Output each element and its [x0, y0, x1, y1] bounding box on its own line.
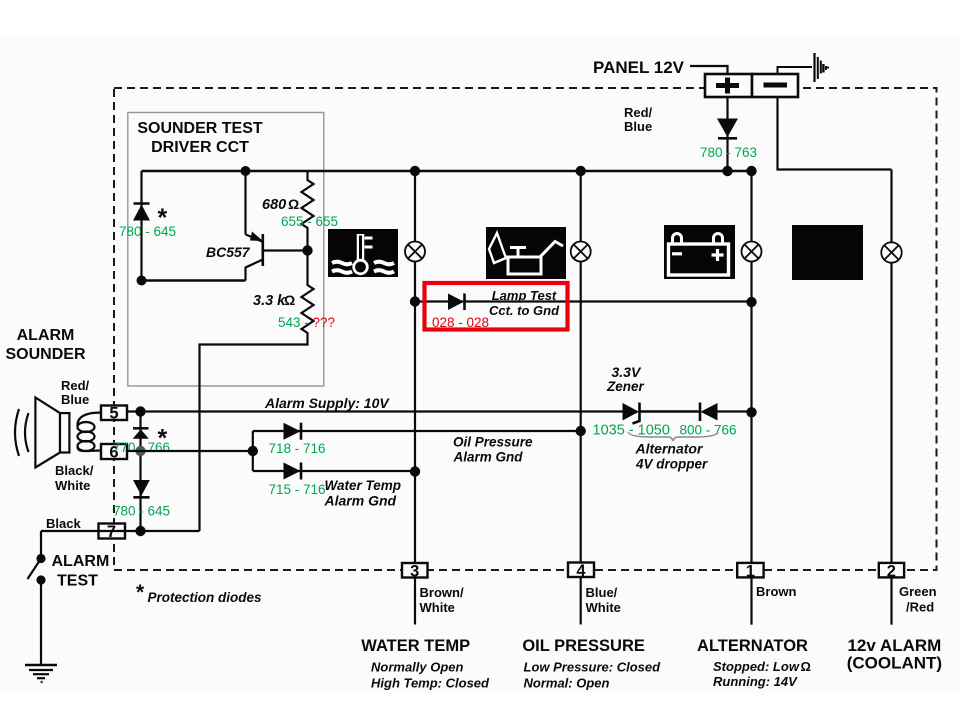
- svg-text:Zener: Zener: [606, 379, 645, 394]
- wire to alarm test switch: [40, 531, 42, 555]
- wire below pin1: [750, 577, 752, 624]
- svg-text:(COOLANT): (COOLANT): [847, 654, 942, 673]
- node pin7 junction: [135, 526, 145, 536]
- wire bus top: [142, 170, 755, 172]
- svg-text:Low Pressure: Closed: Low Pressure: Closed: [524, 660, 662, 675]
- svg-text:Black/: Black/: [55, 463, 94, 478]
- node pin6 junction: [135, 446, 145, 456]
- node collector-left junction: [137, 276, 147, 286]
- node bus battery junction: [722, 166, 732, 176]
- svg-text:5: 5: [109, 405, 118, 423]
- svg-text:Ω: Ω: [288, 196, 299, 212]
- wire column 12v alarm: [890, 170, 892, 564]
- svg-text:WATER TEMP: WATER TEMP: [361, 637, 470, 655]
- resistor R1 680 ohm: [302, 171, 314, 251]
- wire column alternator: [750, 171, 752, 563]
- node lamp test left: [410, 296, 420, 306]
- wire column water temp: [414, 171, 416, 563]
- svg-text:Black: Black: [46, 516, 81, 531]
- svg-text:Lamp Test: Lamp Test: [492, 288, 557, 303]
- wire pin5 to junction / alarm supply: [127, 410, 623, 412]
- svg-text:/Red: /Red: [906, 600, 934, 615]
- wire collector horizontal: [142, 279, 246, 281]
- brace alternator dropper: [628, 432, 718, 441]
- wire below pin2: [890, 577, 892, 624]
- wire panel to battery: [690, 66, 728, 74]
- wire water temp gnd branch: [253, 470, 415, 472]
- svg-text:ALTERNATOR: ALTERNATOR: [697, 637, 808, 655]
- svg-text:Brown: Brown: [756, 584, 797, 599]
- svg-text:ALARM: ALARM: [52, 553, 110, 570]
- wire protection chain 5-6-7: [139, 412, 141, 532]
- pin 2: [879, 562, 904, 580]
- lamp L1 water temp: [405, 242, 425, 262]
- svg-text:Blue: Blue: [61, 392, 89, 407]
- svg-text:Blue/: Blue/: [586, 585, 618, 600]
- svg-text:Stopped: Low: Stopped: Low: [713, 659, 800, 674]
- zener Z1 3.3V: [623, 403, 640, 424]
- node bus alternator junction: [746, 166, 756, 176]
- node bus watertemp junction: [410, 166, 420, 176]
- mark dot below ground: [40, 681, 43, 684]
- svg-text:*: *: [136, 581, 145, 604]
- wire below pin3: [414, 578, 416, 625]
- node bus-emitter junction: [241, 166, 251, 176]
- pin 7: [99, 523, 126, 541]
- svg-text:780 - 645: 780 - 645: [113, 504, 170, 519]
- diode D8 water gnd: [284, 463, 302, 480]
- battery terminal minus box: [752, 74, 798, 97]
- icon oil pressure warning: [486, 227, 566, 279]
- wire zener to diode: [640, 410, 701, 413]
- red highlight box: [425, 283, 568, 330]
- lamp L4 coolant alarm: [881, 242, 901, 262]
- svg-text:Water Temp: Water Temp: [325, 478, 402, 493]
- svg-text:TEST: TEST: [57, 573, 98, 590]
- wire battery plus drop: [726, 97, 728, 171]
- svg-text:SOUNDER: SOUNDER: [5, 346, 85, 363]
- svg-text:543 - ???: 543 - ???: [278, 315, 335, 330]
- svg-text:780 - 645: 780 - 645: [119, 224, 176, 239]
- svg-text:718 - 716: 718 - 716: [269, 441, 326, 456]
- svg-text:High Temp: Closed: High Temp: Closed: [371, 676, 490, 691]
- dashed unit boundary: [114, 88, 937, 570]
- icon water temp warning: [328, 229, 398, 277]
- wire lamp test line: [415, 300, 752, 302]
- pin 4: [568, 562, 594, 580]
- wire left drop sounder box: [140, 171, 142, 282]
- svg-text:Brown/: Brown/: [420, 585, 464, 600]
- diode D5 protection (6-7): [133, 480, 150, 497]
- svg-text:ALARM: ALARM: [17, 327, 75, 344]
- wire column oil pressure: [580, 171, 582, 563]
- svg-text:Running: 14V: Running: 14V: [713, 674, 798, 689]
- svg-text:1035 - 1050: 1035 - 1050: [593, 423, 670, 439]
- wire diode to alternator column: [718, 410, 752, 412]
- svg-text:Ω: Ω: [284, 292, 295, 308]
- lamp L2 oil: [571, 242, 591, 262]
- wire branch vertical connector: [252, 431, 254, 471]
- node pin6 branch junction: [248, 446, 258, 456]
- node pin5 junction: [135, 406, 145, 416]
- svg-text:Cct. to Gnd: Cct. to Gnd: [489, 303, 560, 318]
- resistor R2 3.3 kohm: [200, 251, 314, 532]
- svg-text:Alternator: Alternator: [635, 440, 704, 456]
- svg-text:4V dropper: 4V dropper: [635, 457, 708, 472]
- wire below pin4: [580, 577, 582, 625]
- transistor Q1 BC557: [246, 232, 308, 281]
- node water gnd junction: [410, 466, 420, 476]
- svg-text:3.3 k: 3.3 k: [253, 293, 286, 309]
- svg-text:028 - 028: 028 - 028: [432, 315, 489, 330]
- svg-text:SOUNDER TEST: SOUNDER TEST: [137, 120, 263, 137]
- ground (alarm test): [25, 665, 57, 678]
- svg-text:DRIVER CCT: DRIVER CCT: [151, 139, 249, 156]
- diode D7 oil gnd: [284, 423, 302, 440]
- diode D4 protection (5-6): [133, 428, 149, 439]
- pin 6: [101, 444, 127, 462]
- svg-text:3.3V: 3.3V: [612, 364, 642, 380]
- svg-text:Oil Pressure: Oil Pressure: [453, 435, 533, 450]
- svg-text:BC557: BC557: [206, 244, 251, 260]
- node alternator supply junction: [746, 407, 756, 417]
- wire minus to ground: [778, 67, 813, 74]
- switch alarm test: [28, 554, 46, 585]
- wire emitter drop from bus: [244, 171, 246, 234]
- svg-text:Green: Green: [899, 584, 937, 599]
- svg-text:Blue: Blue: [624, 119, 652, 134]
- svg-text:Normally Open: Normally Open: [371, 660, 464, 675]
- sounder test driver cct box: [128, 113, 324, 387]
- icon blank warning box: [792, 225, 863, 280]
- node base junction: [302, 245, 312, 255]
- svg-text:715 - 716: 715 - 716: [269, 482, 326, 497]
- svg-text:Normal: Open: Normal: Open: [524, 676, 610, 691]
- svg-text:Ω: Ω: [801, 659, 811, 674]
- node oil gnd junction: [576, 426, 586, 436]
- svg-text:Protection diodes: Protection diodes: [148, 590, 263, 605]
- battery terminal plus box: [705, 74, 752, 97]
- svg-text:Red/: Red/: [624, 105, 653, 120]
- ground (panel, sideways): [815, 53, 830, 82]
- diode D1 protection (in sounder box): [133, 204, 150, 221]
- svg-text:PANEL 12V: PANEL 12V: [593, 58, 685, 77]
- wire minus negative run to lamp column 4: [778, 97, 892, 170]
- svg-text:12v ALARM: 12v ALARM: [847, 636, 941, 655]
- coil sounder: [77, 413, 101, 452]
- svg-text:Alarm Gnd: Alarm Gnd: [453, 450, 524, 465]
- pin 5: [101, 405, 127, 423]
- pin 3: [402, 563, 428, 581]
- svg-text:Red/: Red/: [61, 378, 90, 393]
- svg-text:Alarm Gnd: Alarm Gnd: [324, 493, 397, 509]
- svg-text:Alarm Supply: 10V: Alarm Supply: 10V: [264, 395, 390, 411]
- svg-text:OIL PRESSURE: OIL PRESSURE: [522, 637, 645, 655]
- wire pin7 run: [41, 530, 200, 532]
- svg-text:White: White: [586, 600, 621, 615]
- node bus oil junction: [576, 166, 586, 176]
- diode D3 lamp test: [448, 294, 465, 311]
- wire pin6 to branch: [127, 450, 253, 452]
- svg-text:780 - 763: 780 - 763: [700, 145, 757, 160]
- icon battery warning: [664, 225, 735, 279]
- wire switch to ground: [40, 580, 42, 665]
- svg-text:655 - 655: 655 - 655: [281, 214, 338, 229]
- svg-text:800 - 766: 800 - 766: [680, 423, 737, 438]
- speaker alarm sounder: [15, 398, 69, 468]
- svg-text:White: White: [420, 600, 455, 615]
- svg-text:680: 680: [262, 197, 286, 213]
- wire oil pressure gnd branch: [253, 430, 581, 432]
- diode D6 alternator dropper: [700, 403, 718, 422]
- svg-text:White: White: [55, 478, 90, 493]
- node lamp test right: [746, 297, 756, 307]
- lamp L3 alternator: [742, 242, 762, 262]
- diode D2 panel feed: [717, 119, 738, 139]
- pin 1: [737, 562, 763, 580]
